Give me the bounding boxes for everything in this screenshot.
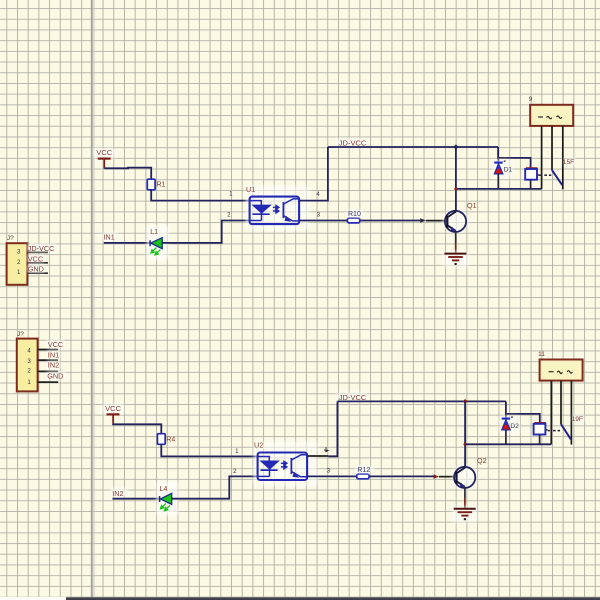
svg-text:4: 4 [316,191,320,198]
sheet border line [91,0,93,600]
transistor Q2 collector stroke [457,468,466,474]
connector J2 pin 2 stub [38,370,59,372]
relay coil K2 [534,422,545,424]
relay armature contact (top) [552,170,562,185]
net label GND on J2 [47,372,66,380]
wire JD-VCC rail to relay branch (bottom) [506,401,540,423]
connector J2 pin 4 stub [38,349,59,351]
designator label R10 [347,210,364,218]
svg-text:J?: J? [7,235,14,242]
relay contact pin wire 1 (top) [541,126,543,189]
transistor Q2 body [452,464,478,490]
wire VCC to R1 [103,167,105,170]
svg-text:11: 11 [538,351,545,358]
wire L4 to U2 pin 2 [172,476,258,498]
optocoupler U1 phototransistor [283,199,299,221]
optocoupler U2 coupling arrows [281,461,287,468]
svg-text:GND: GND [47,371,63,380]
svg-text:IN2: IN2 [112,489,123,498]
pin end arrow (bottom pin 4) [325,449,329,452]
diode D1 pin marks [504,157,506,158]
svg-text:R4: R4 [166,436,175,443]
resistor R1 [147,179,155,190]
transistor Q2 emitter arrow [460,483,466,488]
net label IN1 [102,233,118,241]
wire R4 to U2 pin 1 [161,444,257,456]
optocoupler U1 coupling arrows [273,206,279,213]
wire arrow to Q2 base [439,476,456,478]
net label IN2 [111,489,128,497]
connector J1 pin 1 stub [27,272,48,274]
transistor Q1 emitter stroke [447,225,455,231]
optocoupler U1 internal LED [250,201,270,221]
relay terminal block 11 body [540,360,583,381]
svg-text:Q2: Q2 [477,456,487,465]
connector J2 pin 3 stub [38,359,59,361]
net label VCC on J1 [27,255,44,263]
value label 19F [573,415,585,423]
optocoupler U2 internal LED [258,457,278,477]
wire Q2 collector to JD-VCC junction [464,401,466,467]
wire D1 anode to bottom rail (top) [497,174,499,189]
diode D2 [499,416,519,434]
power port VCC (top) [94,148,115,158]
power port VCC (bottom) [103,404,124,414]
junction [453,144,458,149]
transistor Q1 body [443,208,469,234]
svg-text:R10: R10 [348,211,361,218]
net label JD-VCC on J1 [27,244,56,252]
wire IN1 to LED L1 [104,242,150,244]
relay coil K1 actuator tick [537,174,539,176]
net label VCC on J2 [47,340,64,348]
wire L1 to U1 pin 2 [162,221,249,243]
wire U2 pin 3 to R12 [307,475,356,477]
resistor R10 [347,218,359,223]
wire bottom rail (bottom relay) [465,443,551,445]
transistor Q1 emitter arrow [451,227,457,232]
svg-text:J?: J? [17,331,24,338]
relay contact pin wire 3 (top) [562,126,564,189]
LED L4 emission arrows [161,503,170,510]
diode D1 [492,160,512,178]
svg-text:L1: L1 [150,229,158,236]
wire U2 pin 4 to JD-VCC rail riser [307,455,328,457]
wire U1 pin 3 to R10 [299,220,347,222]
relay contact pin wire 3 (bottom) [570,381,572,445]
wire R1 to U1 pin 1 [151,190,249,201]
svg-text:9: 9 [529,96,533,103]
wire stub to diode D2 [505,414,507,419]
svg-text:VCC: VCC [48,340,63,349]
bottom edge dark bar [0,597,66,600]
svg-text:U1: U1 [246,185,255,194]
svg-text:D1: D1 [504,167,513,174]
svg-text:15F: 15F [563,159,574,166]
svg-text:IN1: IN1 [104,233,115,242]
wire bottom rail (top relay) [456,188,542,190]
op­tocoupler U2 body [254,442,318,486]
transistor Q2 base bar [455,472,457,484]
designator label R12 [356,466,373,474]
wire coil K2 to bottom rail (bottom) [539,435,541,445]
net label JD-VCC (top) [337,139,367,147]
wire IN2 to LED L4 [113,498,160,500]
LED L1 [147,226,169,260]
wire VCC to R4 [113,424,161,434]
svg-text:2: 2 [27,367,31,374]
LED L4 [156,481,178,515]
relay terminal block 11 inner marks [549,371,573,374]
wire Q1 collector to JD-VCC junction [455,147,457,211]
net label GND on J1 [27,265,45,273]
svg-text:4: 4 [324,447,328,454]
wire D2 anode to bottom rail (bottom) [505,430,507,444]
relay coil K2 actuator tick [545,429,547,431]
wire Q1 emitter to ground [455,231,457,243]
svg-text:IN2: IN2 [48,361,59,370]
transistor Q1 collector stroke [447,212,456,218]
relay coil K1 [526,167,537,169]
svg-text:R1: R1 [157,182,166,189]
wire U1 pin 4 to JD-VCC rail riser [299,147,328,201]
transistor Q1 base bar [446,216,448,228]
optocoupler U2 phototransistor [291,455,307,477]
transistor Q2 emitter stroke [457,481,465,487]
relay contact pin wire 2 (bottom) [560,381,562,425]
wire entry arrow (top) [420,218,426,222]
svg-text:1: 1 [27,379,31,386]
net label IN2 on J2 [47,361,60,369]
junction [463,442,467,446]
relay terminal block 9 inner marks [538,116,562,119]
svg-text:VCC: VCC [96,148,112,157]
ground GND under Q1 [443,251,468,267]
svg-text:4: 4 [27,348,31,355]
svg-text:D2: D2 [510,423,519,430]
ground GND under Q2 [452,506,477,522]
svg-text:JD-VCC: JD-VCC [28,244,55,253]
connector J1 body [7,243,28,285]
connector J1 pin 3 stub [27,251,48,253]
wire stub to diode D1 [497,158,499,163]
relay contact pin wire 1 (bottom) [550,381,552,445]
svg-text:VCC: VCC [105,404,121,413]
relay linkage dashes (top) [539,174,551,176]
wire JD-VCC rail to relay branch (top) [498,147,530,169]
connector J2 body [17,339,38,392]
svg-text:Q1: Q1 [467,201,477,210]
wire R10 to Q1 base [360,220,420,222]
resistor R4 [157,434,165,445]
junction [454,187,458,191]
svg-text:GND: GND [28,265,44,274]
wire entry arrow (bottom) [434,474,440,478]
svg-text:JD-VCC: JD-VCC [339,138,367,147]
net label IN1 on J2 [47,351,60,359]
connector J1 pin 2 stub [27,262,48,264]
wire JD-VCC rail (top) [328,146,498,148]
svg-text:IN1: IN1 [48,350,59,359]
svg-text:U2: U2 [254,441,263,450]
wire JD-VCC rail (bottom) [337,400,506,402]
relay contact pin wire 2 (top) [551,126,553,170]
svg-text:VCC: VCC [28,254,43,263]
relay terminal block 9 body [530,105,573,126]
wire Q2 emitter to ground [464,487,466,499]
junction [463,399,468,404]
svg-text:L4: L4 [160,486,168,493]
wire R12 to Q2 base [369,475,433,477]
relay linkage dashes (bottom) [548,430,560,432]
net label JD-VCC (bottom) [337,393,367,401]
wire coil K1 to bottom rail (top) [530,180,532,189]
relay armature contact (bottom) [561,424,571,439]
LED L1 emission arrows [151,248,160,255]
connector J2 pin 1 stub [38,381,59,383]
svg-text:19F: 19F [572,416,583,423]
resistor R12 [357,474,369,479]
diode D2 pin marks [511,413,513,414]
svg-text:R12: R12 [357,467,370,474]
op­tocoupler U1 body [246,186,310,230]
value label 15F [564,158,576,166]
svg-text:JD-VCC: JD-VCC [339,393,367,402]
wire arrow to Q1 base [426,220,448,222]
svg-text:3: 3 [27,358,31,365]
